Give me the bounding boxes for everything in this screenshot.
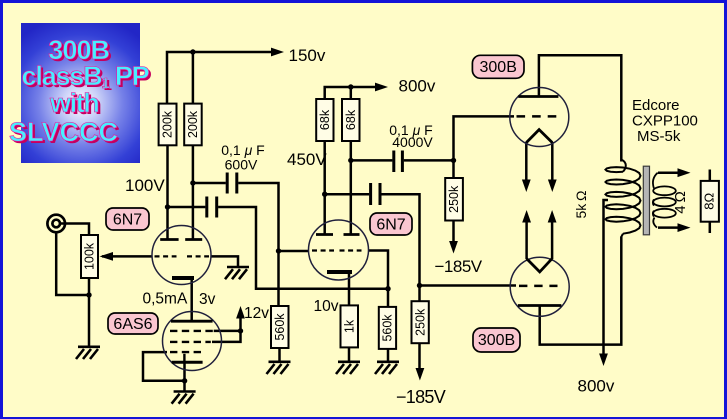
svg-text:68k: 68k: [318, 109, 332, 130]
wire 200k R2 top lead: [192, 52, 195, 104]
capacitor C2 plates: [207, 197, 217, 218]
wire V3 grid row3 to cathode node: [143, 352, 185, 381]
svg-text:MS-5k: MS-5k: [637, 128, 681, 145]
label box 300B lower: [473, 328, 520, 352]
svg-text:250k: 250k: [413, 308, 427, 336]
wire 12v arrow lead: [239, 316, 242, 331]
wire node plate to capacitor C1 left: [193, 182, 226, 185]
svg-text:3v: 3v: [199, 291, 216, 308]
resistor R10 250k: [445, 178, 463, 221]
wire node to capacitor C4 left: [325, 193, 370, 196]
junction C2 to V1 left plate lead: [165, 204, 170, 209]
junction V4 grid bias node: [451, 158, 456, 163]
output transformer core: [643, 166, 649, 235]
output transformer T1 primary winding: [606, 160, 641, 238]
svg-text:200k: 200k: [186, 110, 200, 138]
capacitor C3 value label: [389, 122, 433, 150]
capacitor C3 0,1uF 4000V plates: [394, 151, 403, 173]
svg-text:560k: 560k: [273, 313, 287, 341]
wire secondary top tap: [658, 171, 679, 174]
svg-text:450V: 450V: [287, 150, 327, 169]
junction on 800v rail: [348, 84, 353, 89]
wire input jack to pot top: [60, 224, 89, 236]
svg-text:CXPP100: CXPP100: [632, 113, 698, 130]
junction V2 right grid node: [385, 286, 390, 291]
svg-text:560k: 560k: [381, 314, 395, 342]
svg-text:200k: 200k: [161, 110, 175, 138]
wire V5 filament leads up: [527, 221, 553, 259]
wire 68k R3 bottom to V2 left plate: [323, 141, 326, 234]
junction V3 cathode node: [182, 378, 187, 383]
resistor R7 560k: [271, 306, 289, 348]
wire 150v rail from 200k R1 top: [167, 52, 272, 104]
ground G6: [375, 362, 399, 374]
wire pot bottom to ground: [88, 278, 91, 346]
junction V5 grid bias node: [417, 283, 422, 288]
label box 6N7 second: [370, 213, 412, 235]
svg-text:6AS6: 6AS6: [113, 316, 152, 333]
svg-text:4 Ω: 4 Ω: [672, 191, 689, 214]
tube V3 internals: [170, 321, 214, 362]
svg-text:Edcore: Edcore: [632, 97, 680, 114]
wire V4 filament leads down: [526, 142, 552, 181]
junction on 150v rail: [190, 49, 195, 54]
svg-text:4000V: 4000V: [392, 134, 433, 150]
svg-text:5k Ω: 5k Ω: [573, 190, 589, 218]
tube V1 6N7 envelope: [152, 226, 211, 285]
resistor R12 8 ohm load: [701, 170, 719, 234]
label box 6AS6: [108, 313, 158, 334]
wire V2 cathode to 1k R8: [348, 272, 351, 305]
wire 800v rail from 68k R3 top: [325, 87, 376, 99]
wire V3 grid rows to 12v node: [212, 331, 241, 342]
wire 560k R9 bottom to ground: [387, 349, 390, 362]
tube V1 internals: [155, 240, 210, 279]
title block: [21, 23, 140, 163]
wire V1 cathode to V3 plate: [190, 278, 193, 321]
svg-text:300B: 300B: [480, 59, 517, 76]
label Edcore CXPP100 MS-5k: [632, 97, 698, 145]
arrow -185V upper: [449, 241, 458, 254]
wire node to 560k R9 top: [387, 289, 390, 307]
junction C3 to V2 right plate lead: [348, 158, 353, 163]
ground G5: [336, 362, 360, 374]
resistor R11 250k: [412, 301, 429, 343]
ground G4: [267, 362, 291, 374]
capacitor C1 value label: [221, 142, 264, 173]
arrows V4 filament: [522, 180, 531, 193]
arrow 12v: [236, 306, 245, 319]
wire V4 plate to transformer primary top: [539, 55, 621, 161]
wire 1k R8 bottom to ground: [348, 348, 351, 362]
resistor R1 200k: [159, 104, 177, 146]
arrow -185V lower: [416, 368, 425, 381]
wire 200k R2 bottom to V1 right plate: [192, 145, 195, 240]
wire 560k R7 bottom to ground: [278, 348, 281, 362]
svg-text:10v: 10v: [314, 298, 339, 315]
wire 200k R1 bottom to V1 left plate: [166, 145, 169, 240]
svg-text:8Ω: 8Ω: [702, 193, 717, 210]
svg-text:6N7: 6N7: [113, 212, 142, 229]
wire 68k R4 bottom to V2 right plate: [350, 141, 353, 234]
junction C4 to V2 left plate lead: [322, 192, 327, 197]
svg-text:250k: 250k: [447, 185, 461, 213]
wire 250k R11 bottom arrow lead: [418, 343, 421, 369]
svg-text:800v: 800v: [578, 377, 615, 396]
tube V5 internals: [518, 259, 562, 306]
junction V2 left grid node: [276, 248, 281, 253]
title text lines: [48, 37, 109, 64]
wire capacitor C3 right to grid node of V4: [404, 159, 454, 162]
ground G2: [225, 267, 249, 279]
wire transformer primary bottom to V5 plate: [540, 237, 622, 345]
wire capacitor C2 right to V2 right grid node: [218, 207, 388, 289]
potentiometer R5 100k: [81, 235, 98, 278]
wire V3 cathode to ground: [183, 362, 186, 391]
wire 68k R4 top lead: [350, 87, 353, 99]
label box 6N7 first: [106, 208, 149, 230]
wire capacitor C1 right to V2 left grid: [238, 183, 309, 251]
input jack J1: [47, 215, 65, 233]
resistor R2 200k: [184, 104, 202, 146]
pot wiper arrow: [100, 252, 114, 261]
tube V5 300B lower envelope: [510, 257, 569, 316]
svg-text:12v: 12v: [244, 305, 269, 322]
svg-text:100V: 100V: [125, 176, 165, 195]
wire 250k R10 bottom arrow lead: [452, 221, 455, 243]
svg-text:−185V: −185V: [396, 387, 446, 407]
tube V4 300B upper envelope: [510, 88, 569, 147]
wire grid node up to V4 grid: [454, 116, 515, 178]
wire V2 right grid to node: [369, 251, 389, 289]
svg-text:68k: 68k: [344, 109, 358, 130]
wire V1 grid left to pot wiper arrow: [102, 255, 152, 258]
wire capacitor C4 right to grid node of V5: [381, 194, 419, 301]
output transformer secondary winding: [653, 173, 676, 228]
tube V4 internals: [517, 97, 559, 143]
svg-text:−185V: −185V: [435, 257, 483, 276]
ground G3: [172, 392, 196, 404]
junction C1 to V1 right plate lead: [190, 180, 195, 185]
wire node to capacitor C3 left: [351, 159, 393, 162]
junction V3 grid 12v node: [238, 328, 243, 333]
ground G1: [76, 347, 100, 359]
arrow 800v top: [375, 83, 388, 92]
resistor R8 1k: [341, 305, 359, 347]
junction pot bottom node: [86, 292, 91, 297]
wire input jack sleeve down to pot bottom node: [56, 232, 89, 295]
arrow 150v: [271, 48, 284, 57]
svg-text:0,5mA: 0,5mA: [143, 291, 188, 308]
arrows V5 filament: [522, 210, 531, 223]
wire transformer center tap to 800v arrow: [604, 200, 609, 355]
resistor R3 68k: [316, 99, 333, 141]
svg-text:600V: 600V: [225, 157, 258, 173]
tube V3 6AS6 envelope: [163, 312, 222, 371]
wire node to 560k R7 top: [277, 251, 280, 306]
svg-text:1k: 1k: [342, 319, 356, 333]
capacitor C4 plates: [371, 183, 380, 205]
resistor R4 68k: [342, 99, 360, 141]
svg-text:300B: 300B: [478, 332, 515, 349]
wire V1 grid right to ground: [211, 256, 238, 266]
svg-text:100k: 100k: [83, 242, 97, 270]
arrow secondary bottom tap: [678, 223, 691, 232]
arrow secondary top tap: [678, 168, 691, 177]
wire secondary bottom tap: [658, 226, 679, 229]
wire node plate to capacitor C2 left: [168, 206, 206, 209]
tube V2 6N7 envelope: [309, 220, 369, 280]
wire grid node to V5 grid: [420, 284, 517, 287]
resistor R9 560k: [379, 307, 396, 349]
capacitor C1 0,1uF 600V plates: [227, 173, 237, 194]
arrow 800v bottom: [599, 354, 608, 367]
svg-text:800v: 800v: [399, 77, 436, 96]
label box 300B upper: [472, 55, 524, 78]
svg-text:150v: 150v: [289, 46, 326, 65]
svg-text:6N7: 6N7: [376, 217, 405, 234]
tube V2 internals: [312, 235, 362, 273]
